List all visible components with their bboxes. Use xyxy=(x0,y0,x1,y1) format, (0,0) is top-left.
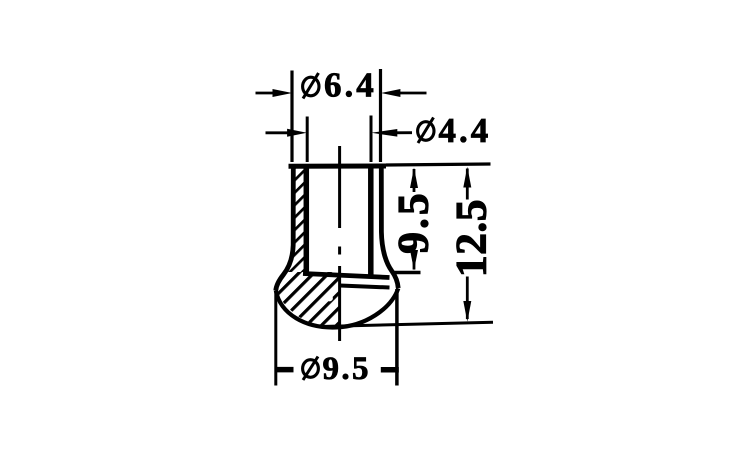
hatch left wall section xyxy=(284,164,306,272)
9.5 up arrow xyxy=(410,168,418,189)
phi9.5 left tick arrow xyxy=(276,367,294,373)
12.5 dimension line upper segment xyxy=(466,169,469,200)
small white dot in hatch xyxy=(326,295,333,302)
right outer wall xyxy=(381,165,398,288)
9.5 bottom reference line xyxy=(394,271,421,275)
phi6.4 left arrow xyxy=(256,92,279,95)
phi9.5 right extension line xyxy=(395,289,399,386)
phi6.4 left extension line xyxy=(290,71,293,163)
centerline upper segment xyxy=(338,146,341,228)
phi6.4 right arrow xyxy=(395,92,427,95)
svg-text:4.4: 4.4 xyxy=(439,111,492,150)
phi4.4 left arrow xyxy=(266,131,293,134)
dimension text phi9.5 xyxy=(303,351,371,387)
12.5 up arrow xyxy=(463,167,471,188)
phi9.5 right tick arrow xyxy=(381,367,399,373)
centerline lower segment xyxy=(338,266,341,341)
dimension text phi6.4 xyxy=(303,66,377,105)
top extension line to height dims xyxy=(386,164,491,165)
12.5 dimension line lower segment xyxy=(466,277,469,320)
svg-text:6.4: 6.4 xyxy=(324,66,377,105)
bottom shoulder line right of center xyxy=(340,286,390,288)
svg-text:12.5: 12.5 xyxy=(448,199,496,277)
hatch bottom section xyxy=(276,272,340,326)
phi4.4 right extension line xyxy=(370,116,373,163)
bottom tangent extension line xyxy=(321,322,493,326)
dimension text phi4.4 xyxy=(418,111,492,150)
9.5 dimension line upper segment xyxy=(413,169,416,192)
phi6.4 right extension line xyxy=(379,69,382,162)
9.5 down arrow xyxy=(410,250,418,270)
top surface line xyxy=(289,164,387,169)
phi4.4 right arrow leader xyxy=(388,131,412,134)
left outer wall xyxy=(276,165,294,291)
spherical bottom curve xyxy=(276,288,399,327)
svg-text:9.5: 9.5 xyxy=(390,190,438,253)
centerline short dash xyxy=(338,247,341,255)
svg-text:9.5: 9.5 xyxy=(323,351,371,387)
phi4.4 left extension line xyxy=(306,117,309,163)
inner bottom line xyxy=(303,274,390,278)
phi9.5 left extension line xyxy=(274,292,277,386)
12.5 down arrow xyxy=(463,301,471,322)
left inner wall xyxy=(304,165,310,272)
right inner wall xyxy=(368,165,374,278)
9.5 dimension line lower segment xyxy=(413,256,416,270)
